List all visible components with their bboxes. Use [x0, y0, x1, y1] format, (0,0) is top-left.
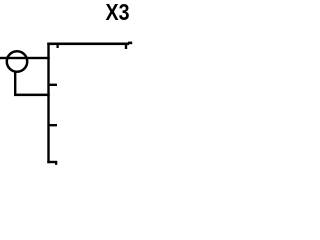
- wire: loop bottom horizontal: [14, 94, 50, 97]
- pin tick on bus at y85: [49, 84, 57, 86]
- wire through circle: [0, 57, 50, 59]
- pin tick on bus at y125: [49, 124, 57, 126]
- wire: main vertical bus: [47, 43, 49, 164]
- terminal circle symbol: [7, 51, 27, 71]
- pin tick on X3 rail at x126: [125, 44, 127, 49]
- rail end up-step: [128, 42, 132, 45]
- wire: stub below circle: [14, 71, 16, 95]
- wire: bottom foot: [47, 161, 57, 163]
- svg-text:X3: X3: [106, 0, 130, 25]
- pin tick on X3 rail at x58: [57, 44, 59, 48]
- connector X3 rail wire: [47, 43, 129, 46]
- foot end nub: [55, 163, 57, 165]
